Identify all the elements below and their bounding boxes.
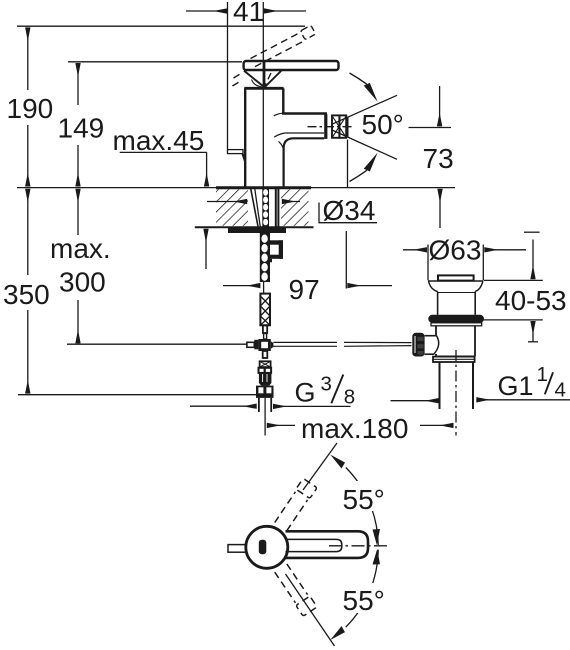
55 labels with white backing (341, 481, 388, 511)
svg-text:max.45: max.45 (113, 125, 205, 156)
aerator drop line (347, 140, 349, 188)
braided hose section (260, 294, 270, 326)
svg-text:40-53: 40-53 (495, 285, 567, 316)
svg-text:G: G (295, 378, 316, 408)
dimension 97 (223, 285, 260, 287)
svg-text:190: 190 (7, 93, 54, 124)
svg-text:41: 41 (233, 0, 264, 27)
dashed lever up position (274, 478, 317, 531)
svg-text:1: 1 (537, 363, 548, 386)
svg-text:Ø63: Ø63 (429, 235, 482, 266)
cartridge top line (244, 87, 283, 90)
dimension 73 (409, 127, 452, 129)
deck hatching right (281, 189, 309, 226)
dimension 190 (17, 26, 305, 186)
tee assembly (258, 339, 270, 351)
faucet body (244, 88, 246, 187)
svg-text:8: 8 (344, 386, 355, 409)
shank tube right wall (275, 189, 277, 228)
drain centerline (455, 350, 457, 436)
svg-text:149: 149 (58, 113, 105, 144)
deck hatching left (216, 189, 248, 226)
nipple (263, 325, 267, 333)
deck bottom line (195, 226, 314, 228)
tee bottom stub (263, 351, 268, 358)
spout centerline (308, 126, 354, 128)
deck top line (17, 187, 455, 189)
dimension Ø34 (207, 201, 247, 203)
dimension 40-53 (524, 231, 540, 233)
G 3/8 label (190, 405, 257, 407)
dashed raised lever (233, 32, 306, 87)
svg-text:max.180: max.180 (301, 413, 408, 444)
svg-text:97: 97 (289, 274, 320, 305)
G3/8 hex nut (256, 386, 274, 398)
spout (282, 112, 327, 115)
ring collar below body (433, 357, 475, 362)
faucet lever bar (244, 61, 339, 70)
threaded tube column (262, 189, 269, 228)
top view: centerline (329, 545, 389, 547)
svg-text:3: 3 (321, 373, 332, 396)
threaded rod below deck (260, 233, 270, 282)
dimension 149 (68, 62, 242, 187)
svg-text:300: 300 (59, 266, 106, 297)
neck line (263, 282, 265, 294)
collar (431, 323, 482, 326)
top view: pin (259, 540, 267, 555)
svg-text:G1: G1 (498, 371, 534, 401)
svg-text:max.: max. (50, 233, 111, 264)
dashed lever down position (274, 563, 317, 616)
top view: handle inner (286, 539, 342, 551)
pop-up rod left (67, 343, 247, 345)
svg-text:4: 4 (555, 378, 566, 401)
dimension max.180 (267, 424, 295, 426)
aerator (324, 114, 327, 139)
svg-text:350: 350 (3, 279, 50, 310)
drain plug cap (438, 275, 474, 280)
top view: body circle (246, 526, 288, 568)
50 degree wedge (332, 95, 397, 124)
knob housing (425, 335, 437, 337)
rear knob box (228, 150, 244, 154)
svg-text:55°: 55° (343, 484, 385, 515)
pop-up rod right with break (273, 342, 411, 346)
55 degree boundary lines (303, 443, 337, 490)
drain body (435, 326, 437, 336)
o-ring (428, 315, 484, 323)
lever base wedge (244, 71, 282, 88)
55 degree arcs (346, 468, 378, 546)
rod side bracket (268, 240, 283, 262)
svg-text:Ø34: Ø34 (323, 195, 376, 226)
shank in hole: wedge lines (251, 189, 258, 227)
svg-text:73: 73 (423, 143, 454, 174)
lever neck (263, 62, 266, 88)
dimension Ø63 (427, 245, 429, 281)
top view: left tab (228, 545, 246, 553)
top view: handle outer (286, 531, 369, 558)
dimension 41 top (186, 2, 306, 188)
drain bell (428, 280, 483, 282)
svg-text:55°: 55° (343, 585, 385, 616)
knurled knob (412, 333, 424, 357)
svg-text:50°: 50° (362, 109, 404, 140)
compression fitting stack (260, 361, 271, 367)
tailpipe (439, 362, 441, 409)
dimension max.300 (77, 189, 79, 343)
dimension 350 (18, 189, 256, 395)
flange nut under deck (228, 228, 286, 233)
supply pipe (258, 398, 260, 412)
